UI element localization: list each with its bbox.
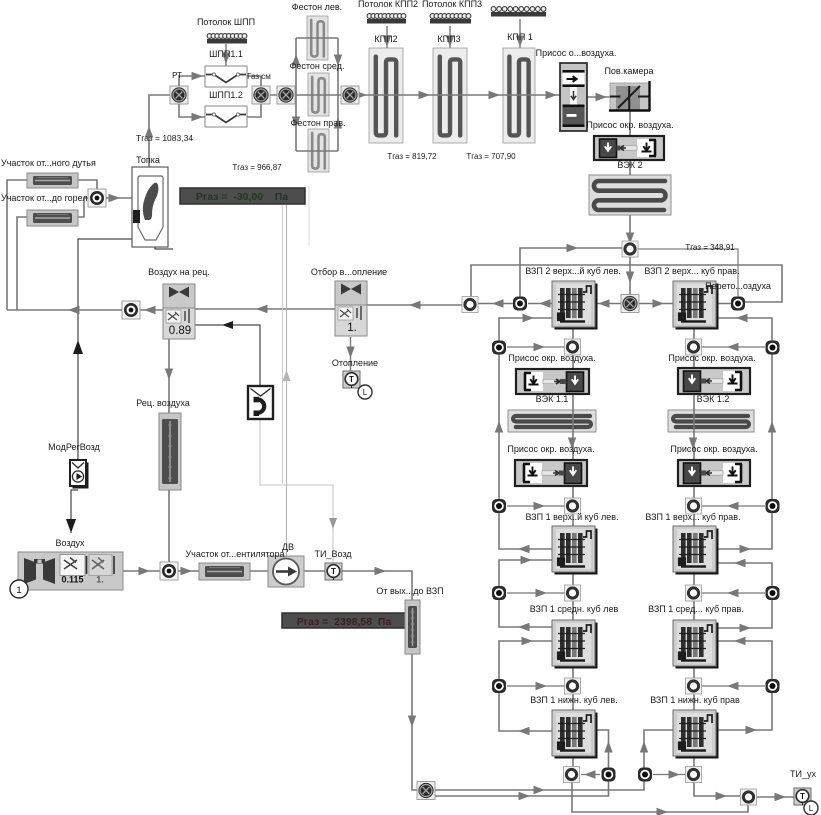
arrow mixer to fan pipe [181,567,193,575]
pipe section От выхода до ВЗП [405,600,420,654]
pressure display Pgas -30.00 Pa [180,188,305,204]
arrow присос row3 left [536,589,548,597]
arrow присос row4 left [536,682,548,690]
svg-text:ВЗП 2 верх...й куб лев.: ВЗП 2 верх...й куб лев. [525,266,621,276]
wire left gas column lower [572,486,574,526]
wire gas left нижн cube to bottom junction [572,754,574,767]
svg-text:Газ см: Газ см [247,72,271,81]
arrow air out VZP2 left inner [598,299,610,307]
arrow ModRegVozd signal up [73,340,83,354]
svg-text:РТ: РТ [172,71,182,80]
svg-text:ВЗП 1 средн. куб лев: ВЗП 1 средн. куб лев [530,604,619,614]
svg-text:ВЗП 1 верх... куб прав.: ВЗП 1 верх... куб прав. [645,512,740,522]
wire right exhaust drop to collector junction [694,782,740,796]
arrow down VZP inlet pipe line [408,716,416,728]
bus junction row3 right [766,586,780,600]
arrow recirc air pipe down [165,369,173,381]
gas junction row2 right [686,498,702,514]
economizer VEK1.2 coil [668,410,754,432]
wire feston left branch riser [295,38,297,151]
svg-text:Участок от...ного дутья: Участок от...ного дутья [1,158,96,168]
junction before feston [277,86,295,104]
arrow between valves [256,305,268,313]
air preheater VZP1 lower cube right [673,710,719,759]
wire bottom distribution line A [426,781,644,790]
wire присос feed row2 left [507,505,564,507]
ceiling tube bank Потолок КПП3 [430,14,471,24]
feston right tube bank [308,129,329,172]
svg-text:Фестон сред.: Фестон сред. [290,61,345,71]
arrow air feed bottom right up [640,741,648,753]
exhaust junction bottom left [564,767,580,783]
ceiling tube bank Потолок ШПП [207,34,247,44]
wire feston bottom branch [296,150,338,152]
wire VZP inlet pipe down to X junction [412,654,418,790]
wire ceiling KPP1 drop [519,19,521,48]
wire feston top branch [296,37,338,39]
arrow into SHPP1.1 [192,72,204,80]
arrow into SHPP1.2 [192,113,204,121]
arrow signal into TI_Vozd [329,518,337,529]
wire infiltration down to VEK2 coil [629,160,631,175]
svg-text:Отбор в...опление: Отбор в...опление [311,267,387,277]
wire присос feed row4 right [702,685,765,687]
svg-text:Tгаз = 707,90: Tгаз = 707,90 [466,152,516,161]
wire gas left верх to средн cube [572,571,574,620]
air preheater VZP1 upper cube right [673,526,719,575]
wire right air bus middle segment [717,563,772,628]
wire bottom right cube air feed [644,730,673,768]
wire turning chamber down to infiltration [629,111,631,136]
arrow air out нижн-лев [518,727,530,735]
gas junction row3 right [686,585,702,601]
junction Tgas 348 [622,241,638,257]
wire bottom distribution line B [426,781,609,796]
recirculation calculator block [248,386,273,419]
control wire ModRegVozd up to furnace [78,239,132,460]
arrow присос row1 right [727,343,739,351]
wire присос feed row1 right [702,346,765,348]
arrow ModRegVozd signal down [66,519,76,533]
arrow присос row3 right [727,589,739,597]
arrow toward bleed valve [409,301,421,309]
svg-text:Отопление: Отопление [332,358,378,368]
wire recirc riser from dark junction to Tgas junction [520,248,630,303]
wire fan pipe to DV fan [250,570,268,572]
control wire recirc calc to valve [195,325,260,387]
wire left gas column upper [572,327,574,369]
svg-text:ВЗП 1 сред... куб прав.: ВЗП 1 сред... куб прав. [648,604,744,614]
dark junction Перето воздуха [731,297,745,311]
svg-text:Потолок КПП2: Потолок КПП2 [358,0,418,9]
wire dark junction to VZP2 left cube [528,303,552,305]
svg-text:ВЗП 1 нижн. куб прав: ВЗП 1 нижн. куб прав [650,695,740,705]
mixer junction air and recirc [160,562,178,580]
arrow after TI_Vozd [375,567,387,575]
svg-text:ШПП1.2: ШПП1.2 [209,90,243,100]
wire fresh air block to mixer junction [123,570,161,572]
arrow left air bus up [495,421,503,433]
wire X junction to VZP2 right cube [630,303,673,305]
wire присос feed row3 right [702,592,765,594]
wire air transfer loop [471,265,782,304]
wire присос feed row4 left [507,685,564,687]
svg-text:1.: 1. [347,322,357,334]
wire присос feed row1 left [507,346,564,348]
draft fan ДВ [268,556,304,587]
wire left air bus upper segment [499,318,552,549]
wire feston junction through KPP blocks [350,94,560,96]
pipe Рец. воздуха [159,413,181,490]
svg-text:0.115: 0.115 [61,575,83,585]
air preheater VZP1 lower cube left [552,710,598,759]
infiltration block row1 left [516,369,589,394]
air preheater VZP1 upper cube left [552,526,598,575]
wire air duct fan to VZP pipe [341,571,412,600]
svg-text:Присос окр. воздуха.: Присос окр. воздуха. [586,120,673,130]
svg-text:Участок от...до горел: Участок от...до горел [1,193,88,203]
junction after feston [341,86,359,104]
gas junction row4 right [686,678,702,694]
svg-text:1: 1 [16,585,21,596]
economizer VEK1.1 coil [508,410,596,432]
bus junction row4 right [766,679,780,693]
wire recirc valve to heating bleed valve [195,308,335,310]
svg-text:КПП 1: КПП 1 [507,32,533,42]
arrow into KPP1 [489,91,501,99]
arrow into TI_ux [775,793,787,801]
air source block Воздух [18,552,123,590]
wire gas right средн to нижн cube [693,664,695,710]
svg-text:Pгаз = -30,00 Па: Pгаз = -30,00 Па [196,191,288,203]
wire VZP2 right cube to dark junction [716,303,738,305]
bus junction row1 right [766,341,780,355]
bus junction row2 right [766,499,780,513]
arrow ceiling KPP3 down [446,36,454,48]
superheater KPP3 block [433,48,467,143]
superheater KPP2 block [369,48,403,143]
wire thin link to dark junction right [630,249,738,303]
svg-text:МодРегВозд: МодРегВозд [48,442,100,452]
arrow присос row1 left [534,343,546,351]
controller МодРегВозд [70,460,89,489]
wire right air bus lower segment [717,641,772,730]
wire heating bleed valve to Otoplenie sensor [350,337,352,371]
signal wire stub near furnace [308,186,310,245]
wire mixer junction to fan section pipe [177,570,199,572]
svg-text:ВЗП 1 верх..й куб лев.: ВЗП 1 верх..й куб лев. [525,512,618,522]
air preheater VZP1 middle cube right [673,620,719,669]
arrow exhaust bottom run [657,808,669,815]
air preheater VZP1 middle cube left [552,620,598,669]
heating bleed valve Отбор в отопление [335,281,367,336]
wire left exhaust drop and bottom run [572,782,748,812]
wire gas mix junction to feston junction [261,94,286,96]
superheater SHPP1.2 box [205,106,247,127]
infiltration block above VEK2 [594,136,664,160]
wire присос feed row2 right [702,505,765,507]
wire white junction to dark junction [470,303,520,305]
svg-text:L: L [809,804,814,813]
wire left air bus lower segment [499,641,552,731]
wire right gas column lower [693,486,695,526]
arrow ceiling KPP1 down [516,36,524,48]
wire ceiling SHPP drop [225,44,227,66]
arrow присос row2 right [727,502,739,510]
svg-text:Tгаз = 348,91: Tгаз = 348,91 [685,243,735,252]
svg-text:Фестон прав.: Фестон прав. [290,118,345,128]
arrow air into VZP2 right cube [736,314,748,322]
arrow присос row4 right [727,682,739,690]
svg-text:Присос окр. воздуха.: Присос окр. воздуха. [668,353,755,363]
arrow air in верх-лев [521,556,533,564]
arrow into recirc valve [144,306,156,314]
svg-text:ШПП1.1: ШПП1.1 [209,49,243,59]
signal wire recirc calc to TI_Vozd [260,419,333,563]
svg-text:ВЭК 1.2: ВЭК 1.2 [697,394,730,404]
svg-text:ВЗП 2 верх... куб прав.: ВЗП 2 верх... куб прав. [644,266,739,276]
svg-text:Рец. воздуха: Рец. воздуха [136,398,189,408]
temperature sensor ТИ_ух [794,788,811,805]
feston middle tube bank [308,73,329,116]
arrow ceiling KPP2 down [383,36,391,48]
arrow into turning chamber [596,93,608,101]
arrow X junction to right cube [653,299,665,307]
wire junction RT up to SHPP1.1 inlet [179,76,205,88]
arrow toward Tgas junction horizontal [567,244,579,252]
wire right air bus upper segment [717,318,772,549]
arrow air in верх-прав [734,559,746,567]
source port number 1 [10,580,28,598]
wire присос feed bottom left [581,774,600,776]
arrow air out средн-лев [518,623,530,631]
gas junction row2 left [565,498,581,514]
arrow air in средн-прав [734,637,746,645]
svg-text:ТИ_Возд: ТИ_Возд [314,549,352,559]
svg-text:От вых...до ВЗП: От вых...до ВЗП [376,586,443,596]
svg-text:КПП2: КПП2 [374,34,397,44]
exhaust junction bottom right [686,767,702,783]
wire gas right верх to средн cube [693,571,695,620]
air preheater VZP2 upper cube right [673,281,719,330]
exhaust collector junction [741,789,757,805]
arrow air into VZP2 left cube [523,314,535,322]
svg-text:0.89: 0.89 [169,325,191,337]
wire right gas column upper [693,327,695,368]
arrow air out верх-прав [740,545,752,553]
heating consumer Отопление sensor [343,371,360,388]
white junction on transfer line [462,297,478,313]
svg-text:ВЗП 1 нижн. куб лев.: ВЗП 1 нижн. куб лев. [530,695,617,705]
superheater KPP1 block [503,48,535,143]
wire gas left средн to нижн cube [572,664,574,710]
arrow air out VZP2 left outer [539,299,551,307]
arrow feston left branch up [292,54,300,66]
wire feston right branch riser [337,38,339,151]
arrow air out средн-прав [740,624,752,632]
svg-text:ВЭК 1.1: ВЭК 1.1 [536,394,569,404]
arrow присос row2 left [534,502,546,510]
wire furnace bottom tap [155,247,173,249]
pipe section Участок от..до горелок [27,210,78,226]
arrow air feed bottom left up [604,741,612,753]
dark junction under VZP2 left [513,297,527,311]
wire furnace outlet to junction RT [149,95,179,167]
feston left tube bank [307,16,328,60]
wire recirc valve down to recirc air pipe [168,339,170,413]
superheater SHPP1.1 box [205,66,247,87]
furnace Топка [132,167,168,247]
arrow into Tgas junction [626,233,634,245]
wire left gas column through VEK1.1 [572,394,574,460]
arrow feston left branch down to junction [334,55,342,67]
svg-text:T: T [349,375,354,384]
arrow into KPP3 [419,91,431,99]
svg-text:Фестон лев.: Фестон лев. [292,2,342,12]
wire DV fan to TI_Vozd sensor [304,570,325,572]
arrow right air bus up [768,421,776,433]
arrow feston bottom branch down [292,117,300,129]
wire left air bus middle segment [499,560,553,627]
wire air duct to blast section [7,180,27,310]
arrow feston bottom branch up to junction [334,117,342,129]
wire ceiling KPP2 drop [386,26,388,48]
svg-text:Tгаз = 966,87: Tгаз = 966,87 [232,163,282,172]
bus junction row3 left [492,586,506,600]
gas junction row1 left [565,339,581,355]
gas junction row1 right [686,339,702,355]
bus junction row2 left [492,499,506,513]
wire blast pipe to mix junction [78,180,97,198]
wire mix junction to furnace [105,197,132,199]
svg-text:КПП3: КПП3 [437,34,460,44]
svg-text:Pгаз = 2398,58 Па: Pгаз = 2398,58 Па [297,616,392,628]
gas junction row3 left [565,585,581,601]
arrow main return left end [68,306,80,314]
gas junction row4 left [565,678,581,694]
svg-text:ТИ_ух: ТИ_ух [790,769,816,779]
svg-text:Воздух: Воздух [55,538,85,548]
arrow присос bottom left [584,770,596,778]
svg-text:Воздух на рец.: Воздух на рец. [148,267,210,277]
bus junction row1 left [492,341,506,355]
svg-text:Топка: Топка [136,155,160,165]
wire main air return line left [7,309,124,311]
recirculation air valve Воздух на рец [163,284,195,339]
svg-text:ВЭК 2: ВЭК 2 [617,160,642,170]
signal wire pressure bar stub [282,204,284,484]
svg-text:Присос окр. воздуха.: Присос окр. воздуха. [507,444,594,454]
infiltration block row1 right [678,368,750,394]
air junction bottom left [602,768,616,782]
svg-text:1.: 1. [96,575,104,585]
wire ceiling KPP3 drop [449,26,451,48]
svg-text:Присос окр. воздуха.: Присос окр. воздуха. [670,444,757,454]
svg-text:Присос о...воздуха.: Присос о...воздуха. [536,48,617,58]
arrow into mix junction [109,194,121,202]
arrow gas down VEK1.2 [689,438,697,450]
svg-text:Потолок КПП3: Потолок КПП3 [422,0,482,9]
wire VZP2 left cube to X junction [595,303,630,305]
arrow air source to mixer [139,567,151,575]
bus junction row4 left [492,679,506,693]
arrow into infiltration [546,91,558,99]
X junction gas distribution bottom [417,782,435,800]
economizer VEK2 coil [589,175,671,215]
arrow toward white junction [492,299,504,307]
arrow gas down VEK1.1 [568,438,576,450]
wire feston middle branch [286,94,350,96]
air preheater VZP2 upper cube left [552,281,598,330]
svg-text:Присос окр. воздуха.: Присос окр. воздуха. [508,353,595,363]
infiltration block row2 right [678,460,750,486]
svg-text:L: L [363,388,368,397]
svg-text:T: T [800,792,805,801]
wire junction to recirc valve [139,309,163,311]
svg-text:Участок от...ентилятора: Участок от...ентилятора [185,549,284,559]
arrow air in средн-лев [522,637,534,645]
wire SHPP1.1 outlet to gas mix junction [247,76,261,95]
arrow pressure signal up [283,370,291,381]
signal wire pressure bar to DV fan [286,204,288,556]
arrow air out нижн-прав [746,726,758,734]
arrow down into X junction [626,272,634,284]
arrow bottom line B [519,792,531,800]
wire recirc air pipe to mixer junction [168,490,170,571]
svg-text:Tгаз = 1083,34: Tгаз = 1083,34 [136,133,193,143]
arrow into KPP2 [356,91,368,99]
wire VEK2 coil down to X junction [629,215,631,303]
svg-text:Tгаз = 819,72: Tгаз = 819,72 [387,152,437,161]
wire air duct to burner section [17,217,27,310]
pipe section Участок от вентилятора [199,563,250,580]
ceiling tube bank Потолок КПП1 [491,7,546,17]
turning chamber Пов.камера [609,81,650,111]
svg-text:Потолок ШПП: Потолок ШПП [197,17,255,27]
X junction between VZP2 cubes [621,295,639,313]
wire junction RT down to SHPP1.2 inlet [179,103,205,117]
gas mixing junction Газ см [252,86,270,104]
arrow air out верх-лев [518,545,530,553]
arrow присос bottom right [669,770,681,778]
wire SHPP1.2 outlet to gas mix junction [247,95,261,117]
junction РТ after furnace [170,86,188,104]
pipe section Участок от..ного дутья [27,173,78,188]
wire присос feed bottom right [653,774,685,776]
infiltration block Присос орг. воздуха vertical [560,63,587,131]
ceiling tube bank Потолок КПП2 [367,14,406,24]
air junction bottom right [638,768,652,782]
svg-text:Пов.камера: Пов.камера [604,66,653,76]
arrow bleed valve to Otoplenie [346,347,354,359]
svg-text:T: T [331,567,336,576]
arrow furnace gas up [145,126,153,138]
svg-text:Перето...оздуха: Перето...оздуха [705,281,771,291]
arrow bottom line A [534,786,546,794]
wire burner pipe to mix junction [78,198,89,217]
wire присос feed row3 left [507,592,564,594]
arrow right exhaust to collector [716,792,728,800]
wire right gas column through VEK1.2 [693,394,695,460]
junction on air return line [122,301,140,319]
wire bleed valve to white junction [367,304,470,306]
wire bottom left cube air feed [595,730,609,768]
wire collector junction to TI_ux sensor [757,796,794,798]
wire gas right нижн cube to bottom junction [693,754,695,767]
infiltration block row2 left [515,460,587,486]
control wire ModRegVozd down to air source [71,490,78,533]
svg-text:ДВ: ДВ [282,542,294,552]
